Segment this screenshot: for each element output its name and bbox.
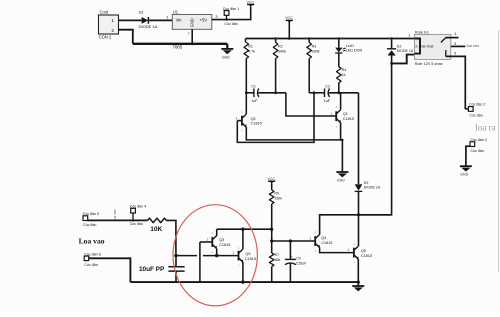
terminal Coc dan 5: [83, 216, 88, 221]
resistor R5: [269, 190, 274, 204]
svg-text:DIODE 1A: DIODE 1A: [364, 186, 381, 190]
page border: [498, 30, 500, 272]
transistor Q5: [239, 249, 244, 263]
wire Q4 emitter: [320, 248, 354, 253]
transistor Q6 value C1815: [361, 254, 372, 258]
wire Q1 collector to D3 column: [358, 93, 360, 184]
wire D3 to collector node: [358, 191, 360, 246]
connector J1 CON2: [99, 15, 119, 34]
capacitor C4 label: [296, 257, 301, 261]
resistor R4 label: [342, 68, 347, 72]
led Led1 value LED DON: [346, 49, 363, 53]
svg-text:+5V: +5V: [200, 18, 208, 23]
svg-text:1: 1: [232, 251, 234, 255]
regulator U1 pin 1 number: [166, 16, 168, 20]
wire base line to Q4: [272, 240, 316, 242]
svg-text:Q5: Q5: [245, 252, 250, 256]
transistor Q4 pin 2 mark: [315, 230, 317, 234]
capacitor C4 plus: [291, 255, 293, 259]
svg-text:D2: D2: [397, 44, 402, 48]
junction Q2 base riser: [313, 91, 316, 94]
regulator U1 Vin label: [176, 18, 183, 23]
regulator U1 GND label: [190, 18, 195, 27]
terminal Coc dan 2 stub: [465, 108, 468, 110]
power VCC1: [247, 1, 255, 8]
led Led1 label: [346, 44, 354, 48]
junction collector node: [357, 213, 360, 216]
capacitor C4 stem: [289, 241, 291, 259]
svg-text:1uF: 1uF: [251, 99, 258, 103]
relay RL1 switch arm: [441, 38, 446, 43]
resistor R2: [273, 43, 278, 59]
transistor Q2 pin 1: [236, 116, 238, 120]
junction C4 base line: [289, 239, 292, 242]
wire R7 bottom: [271, 267, 273, 283]
transistor Q1 pin 1: [330, 112, 332, 116]
wire D2 to relay pin2: [392, 55, 415, 64]
relay RL1 value Role 12V 5 chan: [415, 62, 443, 66]
capacitor C2 label: [325, 85, 330, 89]
resistor R 10K value: [150, 226, 162, 233]
svg-text:3: 3: [215, 15, 217, 19]
wire R7 top stub: [271, 241, 273, 253]
svg-text:Vin: Vin: [176, 18, 183, 23]
svg-text:2: 2: [188, 32, 190, 36]
transistor Q5 refdes: [245, 252, 250, 256]
wire Coc dan 6 to ground rail: [89, 258, 131, 282]
transistor Q6 pin 3 mark: [353, 260, 355, 264]
resistor R4 value: [342, 73, 346, 77]
svg-text:DIODE 1A: DIODE 1A: [139, 24, 158, 29]
svg-text:R2: R2: [278, 45, 283, 49]
svg-text:GND: GND: [460, 173, 468, 177]
wire collector line Q3 Q5: [217, 228, 272, 230]
junction Q3 emitter Q5 base: [215, 254, 218, 257]
wire R5 bottom: [271, 204, 273, 241]
transistor Q2 refdes: [251, 117, 256, 121]
junction R2 C1 node: [274, 91, 277, 94]
transistor Q2 pin 3 mark: [241, 129, 243, 133]
capacitor 10uF stem top: [175, 256, 177, 267]
wire R3 bottom: [308, 59, 310, 93]
wire J1 pin1 to D1: [119, 19, 142, 21]
wire Q5 collector: [242, 229, 244, 249]
wire J1 pin2 down: [119, 30, 133, 44]
wire Q1 emitter: [341, 123, 343, 172]
svg-text:1: 1: [347, 248, 349, 252]
transistor Q6 pin 2 mark: [353, 242, 355, 246]
svg-text:+: +: [291, 255, 293, 259]
wire R2 bottom: [275, 59, 277, 93]
svg-text:GND: GND: [190, 18, 195, 27]
wire Q2 collector: [245, 93, 247, 114]
net label Loa vao: [79, 236, 105, 245]
svg-text:Cóc đần: Cóc đần: [84, 263, 97, 267]
svg-text:390k: 390k: [312, 49, 320, 53]
svg-text:390k: 390k: [278, 49, 286, 53]
terminal Coc dan 3: [470, 142, 475, 147]
terminal Coc dan 4 sublabel: [130, 222, 143, 226]
wire Q3 collector: [216, 229, 218, 235]
terminal Coc dan 2 sublabel: [469, 114, 482, 118]
relay RL1 body: [414, 34, 450, 59]
svg-text:VCC: VCC: [247, 1, 255, 5]
capacitor 10uF value label: [139, 266, 165, 273]
resistor R7 label: [275, 253, 280, 257]
resistor R2 label: [278, 45, 283, 49]
svg-text:GND: GND: [337, 178, 345, 182]
connector J1 pin 1: [111, 18, 114, 24]
svg-text:1: 1: [408, 34, 410, 38]
wire LED to R4: [338, 53, 340, 67]
svg-text:4.7k: 4.7k: [248, 49, 255, 53]
wire C4 bottom: [289, 264, 291, 283]
capacitor 10uF stem bottom: [175, 272, 177, 283]
terminal Coc dan 1 stub: [225, 15, 227, 21]
transistor Q2: [242, 114, 247, 128]
regulator U1 refdes: [173, 9, 179, 14]
terminal Coc dan 1: [224, 11, 229, 16]
svg-text:R4: R4: [342, 68, 347, 72]
resistor R 10K: [148, 218, 167, 222]
wire Q5 emitter: [242, 262, 244, 282]
relay RL1 pin 2 number: [415, 44, 417, 48]
relay RL1 pin 1 number: [408, 34, 410, 38]
diode D3 value DIODE 1A: [364, 186, 381, 190]
junction R5 collector line: [270, 228, 273, 231]
capacitor C1 plates: [254, 89, 259, 98]
terminal Coc dan 2 label: [469, 103, 485, 107]
wire Q2 emitter: [246, 127, 342, 140]
wire C1 right to Q1 base node: [258, 92, 286, 94]
transistor Q1 pin 3 mark: [336, 124, 338, 128]
net label loa ra: [475, 122, 495, 132]
relay RL1 coil wire: [414, 39, 420, 54]
terminal Coc dan 4 stub: [132, 213, 134, 222]
svg-text:10uF PP: 10uF PP: [139, 266, 165, 273]
resistor R3 label: [312, 45, 317, 49]
resistor R3 value: [312, 49, 320, 53]
diode D3: [355, 184, 363, 191]
junction U1 gnd: [191, 42, 194, 45]
junction R4 C2 node: [337, 91, 340, 94]
regulator U1 value 7805: [173, 44, 183, 49]
power VCC2: [285, 16, 293, 23]
svg-text:C1815: C1815: [251, 122, 262, 126]
junction R2 rail: [274, 37, 276, 39]
transistor Q4 refdes: [321, 236, 326, 240]
wire Coc dan 3 to gnd: [466, 146, 470, 166]
terminal Coc dan 3 label: [470, 138, 486, 142]
svg-text:Cóc đần 6: Cóc đần 6: [84, 252, 100, 256]
regulator U1 body: [172, 15, 212, 30]
capacitor 10uF plates: [168, 267, 184, 271]
transistor Q3 pin 3 mark: [212, 250, 214, 254]
svg-text:R5: R5: [274, 192, 279, 196]
transistor Q5 pin 3 mark: [238, 263, 240, 267]
svg-text:C1: C1: [251, 85, 256, 89]
wire C2 right: [329, 92, 359, 94]
transistor Q4 pin 3 mark: [315, 249, 317, 253]
svg-text:5: 5: [454, 52, 456, 56]
terminal Coc dan 6 sublabel: [84, 263, 97, 267]
terminal Coc dan 4 label: [130, 205, 146, 209]
wire D2 bottom: [391, 56, 393, 64]
wire Q3 base: [200, 241, 212, 243]
capacitor C2 value: [324, 99, 331, 103]
svg-text:R1: R1: [248, 45, 253, 49]
terminal Coc dan 5 label: [83, 212, 99, 216]
svg-text:4: 4: [454, 32, 456, 36]
ground GND2: [336, 172, 348, 182]
svg-text:1: 1: [166, 16, 168, 20]
junction Q5 collector: [241, 228, 244, 231]
svg-text:10K: 10K: [150, 226, 162, 233]
transistor Q1: [336, 110, 341, 124]
relay RL1 pin 5 wire: [446, 56, 466, 109]
svg-text:loa vao: loa vao: [467, 43, 480, 48]
relay RL1 pin 5 number: [454, 52, 456, 56]
terminal Coc dan 6 label: [84, 252, 100, 256]
svg-text:DIODE 1A: DIODE 1A: [397, 49, 414, 53]
terminal Coc dan 4: [131, 208, 136, 213]
resistor R1 label: [248, 45, 253, 49]
junction Q5 emitter rail: [241, 280, 244, 283]
transistor Q4: [315, 235, 320, 249]
svg-text:loa ra: loa ra: [475, 122, 495, 132]
svg-text:C1815: C1815: [343, 117, 354, 121]
resistor R3 top stub: [308, 39, 310, 43]
capacitor C4 value: [296, 261, 307, 265]
svg-text:Cóc đần: Cóc đần: [130, 222, 143, 226]
wire Q2 base: [237, 120, 242, 122]
svg-text:Q4: Q4: [321, 236, 326, 240]
resistor R3: [307, 43, 312, 59]
net label loa vao: [467, 43, 480, 48]
junction LED rail: [338, 37, 340, 39]
svg-text:C1815: C1815: [361, 254, 372, 258]
wire R3 to C2: [309, 92, 324, 94]
svg-text:1: 1: [236, 116, 238, 120]
transistor Q2 pin 2 mark: [241, 110, 243, 114]
wire rail to D2: [391, 39, 393, 49]
svg-text:VCC: VCC: [285, 16, 293, 20]
wire C1 left: [246, 92, 254, 94]
relay RL1 pin 3 number: [454, 42, 456, 46]
terminal Coc dan 3 sublabel: [470, 149, 483, 153]
svg-text:Role tx1: Role tx1: [415, 30, 429, 34]
resistor R4: [337, 67, 342, 83]
ground GND1: [221, 44, 233, 60]
capacitor C4 plates: [285, 259, 296, 264]
svg-text:2: 2: [415, 44, 417, 48]
svg-text:Cóc đần: Cóc đần: [469, 114, 482, 118]
terminal Coc dan 5 sublabel: [83, 223, 96, 227]
svg-text:C4: C4: [296, 257, 301, 261]
diode D2 value DIODE 1A: [397, 49, 414, 53]
wire rail to LED: [338, 39, 340, 48]
wire Q2 base return: [237, 93, 314, 143]
transistor Q6 refdes: [361, 249, 366, 253]
resistor R1 top stub: [245, 39, 247, 43]
relay RL1 coil label chan that: [419, 44, 434, 48]
transistor Q5 pin 2 mark: [238, 246, 240, 250]
wire R1 to Q2 collector node: [245, 59, 247, 93]
wire Q6 emitter: [357, 259, 359, 282]
transistor Q3 refdes: [219, 238, 224, 242]
transistor Q4 pin 1: [309, 237, 311, 241]
svg-text:Cout: Cout: [100, 10, 110, 15]
resistor R1 value: [248, 49, 255, 53]
power VCC3: [268, 177, 276, 184]
wire input to 10K: [88, 219, 148, 221]
svg-text:Cóc đần: Cóc đần: [224, 22, 237, 26]
relay RL1 refdes Role tx1: [415, 30, 429, 34]
svg-text:VCC: VCC: [268, 177, 276, 181]
wire R4 bottom: [338, 83, 340, 93]
capacitor C2 plates: [325, 89, 330, 98]
svg-text:C1815: C1815: [219, 243, 230, 247]
transistor Q6: [354, 246, 359, 260]
relay RL1 pin 3 wire: [451, 45, 466, 47]
svg-text:Q2: Q2: [251, 117, 256, 121]
svg-text:3: 3: [454, 42, 456, 46]
diode D1 value DIODE 1A: [139, 24, 158, 29]
junction D2 node: [390, 62, 393, 65]
relay RL1 pin 4 number: [454, 32, 456, 36]
svg-text:1: 1: [330, 112, 332, 116]
wire D2 node to collector node: [359, 63, 392, 214]
svg-text:Loa vao: Loa vao: [79, 236, 105, 245]
wire VCC rail: [246, 38, 415, 40]
svg-text:loa vao: loa vao: [113, 209, 117, 220]
wire 10K to input node: [166, 220, 176, 255]
svg-text:D3: D3: [364, 181, 369, 185]
svg-text:Cóc đần 5: Cóc đần 5: [83, 212, 99, 216]
junction input node: [174, 254, 177, 257]
wire U1 out to VCC: [212, 7, 251, 20]
wire Q3 emitter: [216, 249, 218, 256]
wire D1 to U1: [149, 19, 172, 21]
wire Q4 collector: [320, 215, 392, 235]
junction R1 C1: [245, 91, 248, 94]
terminal Coc dan 1 label: [223, 7, 239, 11]
svg-text:U1: U1: [173, 9, 179, 14]
connector J1 pin 2: [111, 28, 114, 34]
svg-text:C1815: C1815: [245, 257, 256, 261]
svg-text:R7: R7: [275, 253, 280, 257]
transistor Q6 pin 1: [347, 248, 349, 252]
transistor Q3 pin 1: [206, 238, 208, 242]
wire Q3 base riser to rail: [199, 242, 201, 282]
svg-text:1: 1: [206, 238, 208, 242]
junction Q6 emitter rail: [357, 281, 360, 284]
capacitor C1 value: [251, 99, 258, 103]
junction R5 base line: [270, 239, 273, 242]
resistor R7 value: [275, 258, 281, 262]
transistor Q5 value C1815: [245, 257, 256, 261]
svg-text:D1: D1: [139, 9, 145, 14]
net label loa vao vertical: [113, 209, 117, 220]
svg-text:1: 1: [309, 237, 311, 241]
transistor Q5 pin 1: [232, 251, 234, 255]
power VCC2 stem: [288, 21, 290, 39]
ground GND4: [460, 166, 472, 176]
resistor R2 value: [278, 49, 286, 53]
transistor Q3 pin 2 mark: [212, 231, 214, 235]
wire Q1 base link: [286, 93, 336, 116]
wire Q5 base segment: [203, 255, 239, 257]
transistor Q1 value C1815: [343, 117, 354, 121]
diode D3 label: [364, 181, 369, 185]
transistor Q1 pin 2 mark: [336, 105, 338, 109]
svg-text:1: 1: [111, 18, 114, 24]
svg-text:Q3: Q3: [219, 238, 224, 242]
svg-text:CON 2: CON 2: [99, 35, 112, 40]
capacitor C1 label: [251, 85, 256, 89]
junction D2 rail: [390, 37, 392, 39]
regulator U1 +5V label: [200, 18, 208, 23]
power VCC3 stem: [271, 183, 273, 190]
junction R3 rail: [308, 37, 310, 39]
svg-text:GND: GND: [222, 55, 230, 59]
wire ground rail: [130, 281, 358, 283]
svg-text:Q6: Q6: [361, 249, 366, 253]
wire input segment: [176, 255, 197, 257]
annotation red ellipse: [173, 205, 257, 306]
diode D1: [142, 17, 149, 24]
resistor R2 top stub: [275, 39, 277, 43]
svg-text:Cóc đần: Cóc đần: [470, 149, 483, 153]
transistor Q3: [212, 236, 217, 250]
svg-text:2: 2: [111, 28, 114, 34]
transistor Q3 value C1815: [219, 243, 230, 247]
regulator U1 pin 2 number: [188, 32, 190, 36]
svg-text:Led1: Led1: [346, 44, 354, 48]
svg-text:Role 12V 5 chan: Role 12V 5 chan: [415, 62, 443, 66]
diode D2: [387, 49, 396, 56]
regulator U1 pin 3 number: [215, 15, 217, 19]
svg-text:C2: C2: [325, 85, 330, 89]
connector J1 value CON 2: [99, 35, 112, 40]
svg-text:LED DON: LED DON: [346, 49, 363, 53]
svg-text:Cóc đần 4: Cóc đần 4: [130, 205, 146, 209]
wire U1 GND pin: [191, 29, 193, 44]
svg-text:Cóc đần 2: Cóc đần 2: [469, 103, 485, 107]
svg-text:56k: 56k: [275, 258, 281, 262]
transistor Q1 refdes: [343, 112, 348, 116]
svg-text:Cóc đần: Cóc đần: [83, 223, 96, 227]
junction Q1 Q2 emitters: [341, 139, 343, 141]
wire ground bus under U1: [133, 43, 228, 45]
led Led1: [335, 48, 346, 54]
resistor R7: [269, 253, 274, 267]
svg-text:7805: 7805: [173, 44, 183, 49]
svg-text:C25uF: C25uF: [296, 261, 307, 265]
resistor R1: [244, 43, 249, 59]
ground GND3: [352, 282, 364, 291]
svg-text:Cóc đần 1: Cóc đần 1: [223, 7, 239, 11]
transistor Q2 value C1815: [251, 122, 262, 126]
resistor R5 value: [274, 196, 282, 200]
relay RL1 pin 5 stub: [445, 50, 447, 56]
terminal Coc dan 6: [84, 256, 89, 261]
svg-text:chan that: chan that: [419, 44, 434, 48]
resistor R5 label: [274, 192, 279, 196]
junction VCC2 rail: [288, 37, 291, 40]
terminal Coc dan 2: [468, 107, 473, 112]
transistor Q4 value C1815: [321, 241, 332, 245]
